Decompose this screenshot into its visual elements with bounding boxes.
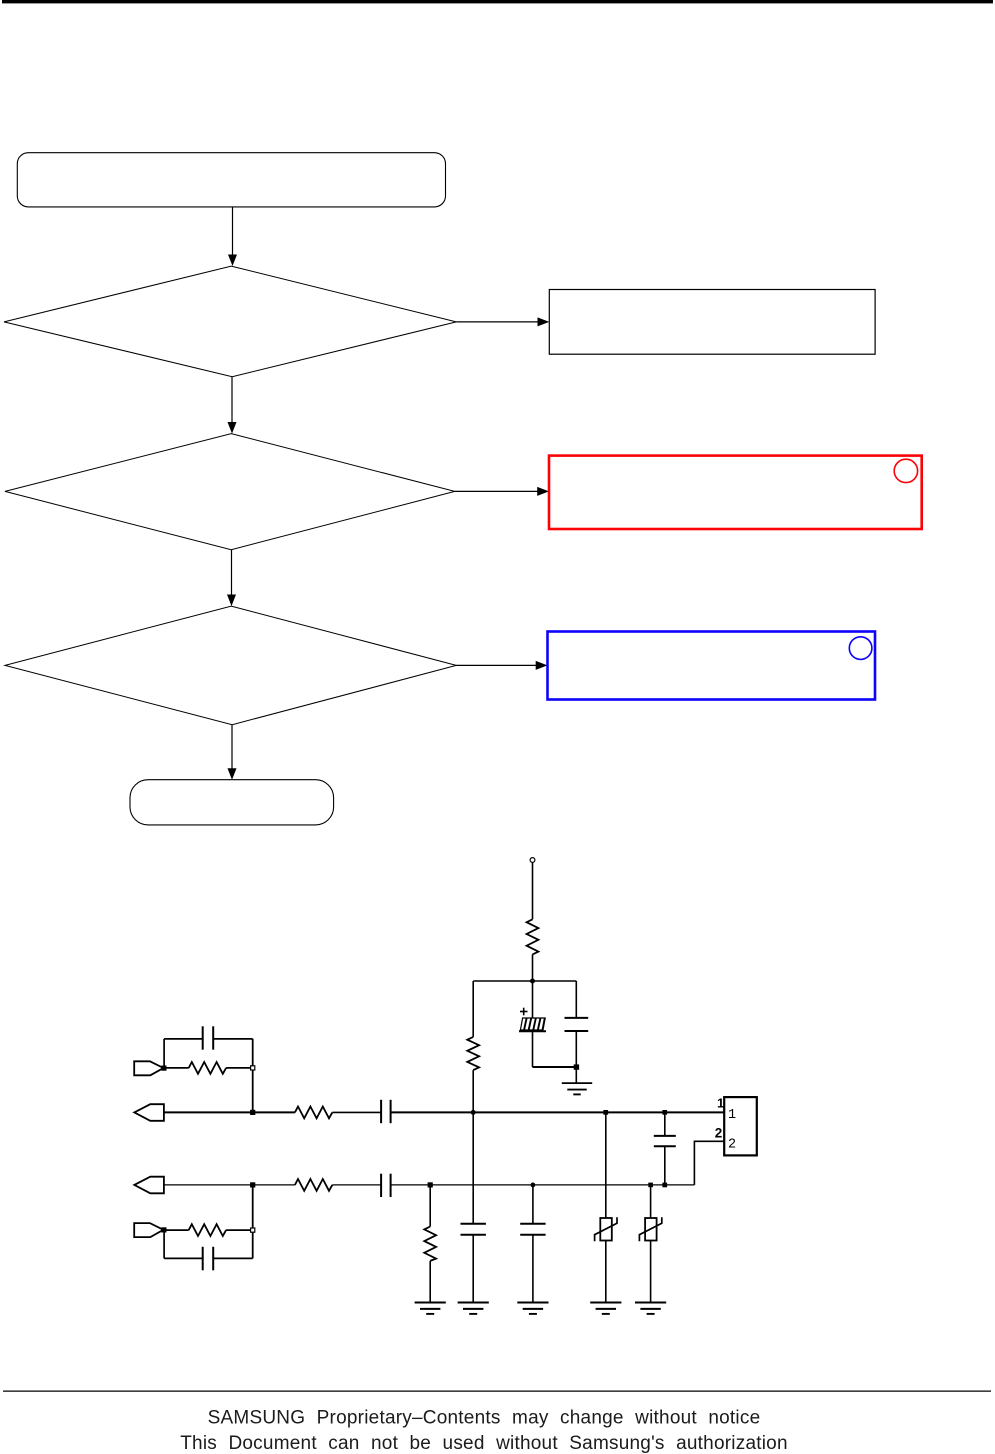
input arrow connector P2 xyxy=(134,1104,164,1121)
wire bus B to R7 xyxy=(429,1185,431,1227)
junction dot bus A / R2 column xyxy=(471,1110,476,1115)
decision diamond 1 xyxy=(4,266,456,377)
capacitor C4 xyxy=(203,1026,214,1049)
svg-text:1: 1 xyxy=(728,1108,736,1123)
wire arrow from decision 1 to action box 1 xyxy=(456,317,549,326)
junction dot bus A / C9 column xyxy=(662,1110,667,1115)
resistor R1 xyxy=(527,919,539,954)
resistor R7 xyxy=(424,1227,436,1261)
wire C4 branch top right xyxy=(213,1038,253,1040)
capacitor C8 xyxy=(520,1224,545,1235)
wire C8 to ground G4 xyxy=(532,1235,534,1302)
capacitor C5 xyxy=(381,1174,391,1197)
wire arrow from decision 3 to action box 3 xyxy=(456,661,547,670)
capacitor C6 xyxy=(203,1247,214,1271)
wire P1 to R4 xyxy=(166,1067,189,1069)
wire C1 to bottom rail xyxy=(532,1032,534,1067)
wire C6 branch bottom right xyxy=(213,1257,253,1259)
wire node A down to C2 xyxy=(575,981,577,1018)
wire R6 to junction xyxy=(226,1229,253,1231)
capacitor C3 xyxy=(381,1100,391,1123)
wire arrow from decision 3 to end terminal xyxy=(228,725,237,780)
decision diamond 2 xyxy=(5,434,455,550)
junction dot bus B / C9 xyxy=(662,1183,667,1188)
wire node A down to C1 xyxy=(532,981,534,1018)
svg-text:2: 2 xyxy=(728,1137,736,1152)
junction square bus A xyxy=(251,1110,255,1114)
ground G1 xyxy=(562,1083,592,1094)
wire R3 to C3 xyxy=(332,1111,381,1113)
junction square R6/C6 xyxy=(251,1228,255,1232)
flowchart start terminal box xyxy=(17,153,445,207)
node VBAT open terminal xyxy=(530,858,535,863)
wire riser bus B down to R6 junction xyxy=(252,1185,254,1259)
input arrow connector P3 xyxy=(134,1177,164,1194)
action box 2 (red) xyxy=(549,456,922,529)
bus B wire left xyxy=(163,1184,295,1186)
resistor R3 xyxy=(295,1107,332,1119)
ground G3 xyxy=(458,1303,489,1314)
ground G6 xyxy=(635,1303,666,1314)
capacitor C1 polarity plus sign xyxy=(520,1008,528,1016)
action box 1 xyxy=(549,290,875,355)
wire node A down to R2 xyxy=(472,981,474,1037)
red callout circle xyxy=(894,459,917,482)
junction square bus B xyxy=(251,1183,255,1187)
junction dot bus A / RV1 column xyxy=(603,1110,608,1115)
connector CON1 body xyxy=(724,1097,757,1155)
resistor R4 xyxy=(189,1062,226,1074)
wire C7 to ground G3 xyxy=(472,1235,474,1302)
svg-text:This Document can not be used: This Document can not be used without Sa… xyxy=(180,1433,788,1454)
wire RV2 to ground G6 xyxy=(650,1240,652,1302)
action box 3 (blue) xyxy=(548,632,876,700)
wire R4 to junction xyxy=(226,1067,253,1069)
varistor RV2 xyxy=(639,1217,661,1241)
wire R7 to ground G2 xyxy=(429,1261,431,1302)
capacitor C7 xyxy=(461,1224,486,1235)
ground G4 xyxy=(517,1303,548,1314)
capacitor C2 xyxy=(565,1018,589,1067)
ground G2 xyxy=(415,1303,446,1314)
blue callout circle xyxy=(849,637,872,660)
wire C6 branch left riser xyxy=(163,1230,165,1258)
wire R5 to C5 xyxy=(332,1184,381,1186)
capacitor C1 bottom plate xyxy=(519,1030,546,1032)
wire terminal to R1 xyxy=(532,862,534,919)
wire bus A to C9 xyxy=(664,1112,666,1136)
wire R1 to node A xyxy=(532,955,534,982)
footer separator rule xyxy=(3,1390,991,1392)
wire junction to ground G1 xyxy=(575,1069,577,1083)
wire bus B up to connector pin 2 xyxy=(694,1141,724,1185)
resistor R5 xyxy=(295,1179,332,1191)
wire arrow from decision 2 to decision 3 xyxy=(227,550,236,606)
decision diamond 3 xyxy=(5,606,456,725)
wire P4 to R6 xyxy=(166,1229,189,1231)
resistor R6 xyxy=(189,1224,226,1236)
junction square C2 bottom xyxy=(574,1065,579,1070)
junction square P1 tip xyxy=(162,1066,166,1070)
resistor R2 xyxy=(467,1037,479,1070)
svg-text:SAMSUNG Proprietary–Contents m: SAMSUNG Proprietary–Contents may change … xyxy=(208,1407,761,1428)
svg-text:1: 1 xyxy=(717,1096,724,1111)
capacitor C9 xyxy=(654,1136,676,1146)
junction square P4 tip xyxy=(162,1228,166,1232)
svg-text:2: 2 xyxy=(715,1126,723,1141)
wire bus B to RV2 xyxy=(650,1185,652,1218)
wire C4 branch top left xyxy=(164,1038,203,1040)
wire C1/C2 bottom rail xyxy=(533,1066,577,1068)
wire arrow from start terminal to decision 1 xyxy=(228,207,237,266)
bus A wire left xyxy=(163,1111,295,1113)
wire C4 right riser down to bus A xyxy=(252,1039,254,1113)
flowchart end terminal box xyxy=(130,780,334,825)
wire R2 down through bus A and bus B to C7 xyxy=(472,1070,474,1224)
wire RV1 to ground G5 xyxy=(605,1240,607,1302)
junction square bus B / R7 xyxy=(428,1183,432,1187)
wire C4 branch left riser xyxy=(163,1039,165,1068)
wire arrow from decision 1 to decision 2 xyxy=(228,377,237,434)
wire bus A to RV1 xyxy=(605,1112,607,1217)
wire C6 branch bottom left xyxy=(164,1257,203,1259)
wire arrow from decision 2 to action box 2 xyxy=(455,487,549,496)
wire bus B to C8 xyxy=(532,1185,534,1224)
junction dot bus B / RV2 xyxy=(648,1183,653,1188)
bus B wire right xyxy=(391,1184,695,1186)
input flag connector P1 xyxy=(134,1061,163,1075)
junction square R4/C4 xyxy=(251,1066,255,1070)
capacitor C1 electrolytic hatched plate xyxy=(520,1018,545,1030)
wire C9 to bus B xyxy=(664,1146,666,1185)
input flag connector P4 xyxy=(134,1223,163,1237)
top page border bar xyxy=(2,0,993,3)
wire node A horizontal xyxy=(473,980,576,982)
bus A wire right to connector xyxy=(391,1111,725,1113)
node A junction dot xyxy=(530,979,535,984)
varistor RV1 xyxy=(595,1217,617,1241)
ground G5 xyxy=(590,1303,621,1314)
junction dot bus B / C8 xyxy=(531,1183,536,1188)
